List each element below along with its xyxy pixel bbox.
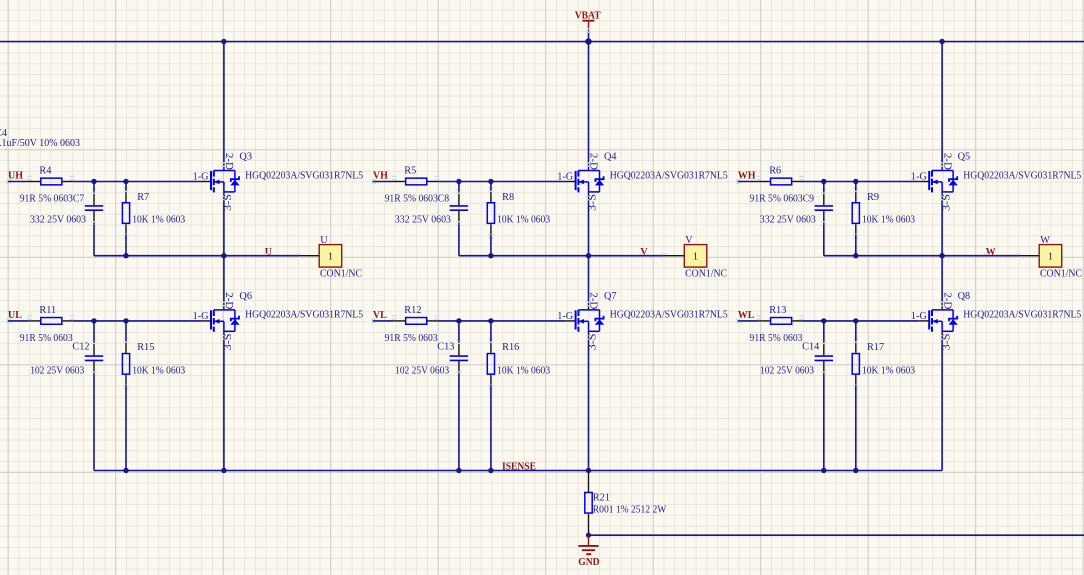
compile mark: [661, 253, 666, 258]
junction: [853, 318, 858, 323]
wire: [93, 182, 95, 191]
svg-text:R17: R17: [867, 342, 884, 353]
compile mark: [821, 189, 826, 194]
wire cap to output row: [823, 225, 825, 256]
resistor R15: [122, 338, 185, 389]
svg-text:Q4: Q4: [604, 152, 617, 163]
wire R8 to output row: [490, 235, 492, 256]
svg-text:3-S: 3-S: [941, 333, 952, 350]
resistor R21: [585, 471, 667, 536]
svg-text:W: W: [986, 247, 996, 258]
svg-text:CON1/NC: CON1/NC: [685, 268, 727, 279]
svg-text:R11: R11: [39, 305, 56, 316]
svg-text:HGQ02203A/SVG031R7NL5: HGQ02203A/SVG031R7NL5: [963, 170, 1081, 181]
compile mark: [586, 162, 591, 167]
compile mark: [940, 335, 945, 340]
resistor R4: [27, 166, 75, 185]
svg-text:C12: C12: [72, 342, 89, 353]
wire VBAT to Q5 drain: [941, 42, 943, 162]
junction: [853, 468, 858, 473]
compile mark: [221, 162, 226, 167]
svg-text:R5: R5: [404, 166, 416, 177]
wire R4 to Q3 gate: [72, 181, 201, 183]
resistor R16: [487, 338, 550, 389]
resistor R7: [122, 187, 185, 238]
capacitor C4 (label only): [0, 128, 80, 149]
compile mark: [92, 221, 97, 226]
svg-text:U: U: [320, 235, 328, 246]
svg-text:2-D: 2-D: [588, 153, 599, 171]
wire: [490, 321, 492, 341]
svg-text:Q5: Q5: [958, 152, 971, 163]
wire R15 to ISENSE rail: [125, 385, 127, 470]
svg-text:R16: R16: [502, 342, 519, 353]
svg-text:91R 5% 0603: 91R 5% 0603: [750, 333, 803, 344]
compile mark: [124, 187, 129, 192]
wire: [823, 182, 825, 191]
compile mark: [736, 319, 741, 324]
junction: [123, 179, 128, 184]
compile mark: [821, 221, 826, 226]
svg-text:10K 1% 0603: 10K 1% 0603: [862, 365, 915, 376]
wire cap to ISENSE rail: [458, 375, 460, 471]
compile mark: [821, 339, 826, 344]
svg-text:332 25V 0603: 332 25V 0603: [760, 215, 816, 226]
svg-text:3-S: 3-S: [223, 333, 234, 350]
wire cap to output row: [93, 225, 95, 256]
svg-text:10K 1% 0603: 10K 1% 0603: [862, 215, 915, 226]
svg-text:R13: R13: [769, 305, 786, 316]
compile mark: [984, 253, 989, 258]
svg-text:2-D: 2-D: [223, 153, 234, 171]
resistor R17: [852, 338, 915, 389]
svg-text:V: V: [640, 247, 648, 258]
wire Q5 source to output row: [941, 201, 943, 255]
transistor Q3: [193, 152, 364, 212]
capacitor C: [450, 189, 468, 226]
compile mark: [27, 176, 32, 181]
wire: [458, 182, 460, 191]
compile mark: [221, 196, 226, 201]
compile mark: [1016, 253, 1021, 258]
connector CON1/NC (V): [664, 235, 727, 279]
svg-text:91R 5% 0603: 91R 5% 0603: [20, 333, 73, 344]
compile mark: [853, 385, 858, 390]
compile mark: [6, 319, 11, 324]
resistor R8: [487, 187, 550, 238]
wire VBAT stem: [588, 31, 590, 42]
junction: [586, 253, 591, 258]
svg-text:R4: R4: [39, 166, 51, 177]
svg-text:CON1/NC: CON1/NC: [320, 268, 362, 279]
power VBAT: [575, 10, 601, 30]
compile mark: [799, 176, 804, 181]
svg-text:1-G: 1-G: [911, 172, 928, 183]
compile mark: [821, 371, 826, 376]
wire output row to Q8 drain: [941, 256, 943, 301]
svg-text:R6: R6: [769, 166, 781, 177]
wire output W: [824, 255, 1019, 257]
svg-text:91R 5% 0603C7: 91R 5% 0603C7: [20, 193, 85, 204]
wire R17 to ISENSE rail: [855, 385, 857, 470]
svg-text:91R 5% 0603C8: 91R 5% 0603C8: [385, 193, 450, 204]
transistor Q5: [911, 152, 1082, 212]
compile mark: [586, 335, 591, 340]
compile mark: [456, 221, 461, 226]
wire R7 to output row: [125, 235, 127, 256]
junction: [488, 468, 493, 473]
svg-text:10K 1% 0603: 10K 1% 0603: [132, 365, 185, 376]
svg-text:CON1/NC: CON1/NC: [1040, 268, 1082, 279]
resistor R13: [757, 305, 805, 324]
junction GND: [586, 533, 591, 538]
junction: [488, 179, 493, 184]
svg-text:R9: R9: [867, 192, 879, 203]
svg-text:3-S: 3-S: [223, 194, 234, 211]
svg-text:Q6: Q6: [239, 291, 252, 302]
wire Q3 source to output row: [223, 201, 225, 255]
compile mark: [853, 338, 858, 343]
compile mark: [757, 315, 762, 320]
svg-text:332 25V 0603: 332 25V 0603: [30, 215, 86, 226]
junction: [123, 468, 128, 473]
compile mark: [70, 315, 75, 320]
svg-text:1-G: 1-G: [193, 311, 210, 322]
wire: [125, 182, 127, 191]
junction: [456, 318, 461, 323]
compile mark: [586, 302, 591, 307]
wire: [490, 182, 492, 191]
junction: [221, 253, 226, 258]
junction: [586, 468, 591, 473]
compile mark: [92, 189, 97, 194]
capacitor C14: [802, 339, 833, 376]
junction: [91, 179, 96, 184]
wire UH to R4: [8, 181, 29, 183]
svg-text:V: V: [685, 235, 693, 246]
svg-text:Q7: Q7: [604, 291, 617, 302]
compile mark: [456, 371, 461, 376]
svg-text:C13: C13: [437, 342, 454, 353]
wire Q4 source to output row: [588, 201, 590, 255]
power rail VBAT wire: [0, 41, 1084, 43]
svg-text:1: 1: [1048, 251, 1053, 262]
junction: [939, 253, 944, 258]
junction: [488, 318, 493, 323]
wire: [823, 321, 825, 341]
wire R6 to Q5 gate: [802, 181, 919, 183]
junction: [821, 179, 826, 184]
compile mark: [736, 179, 741, 184]
junction: [853, 179, 858, 184]
compile mark: [392, 176, 397, 181]
compile mark: [371, 179, 376, 184]
svg-text:2-D: 2-D: [941, 292, 952, 310]
compile mark: [488, 187, 493, 192]
junction: [488, 253, 493, 258]
wire R11 to Q6 gate: [72, 320, 201, 322]
resistor R9: [852, 187, 915, 238]
compile mark: [853, 234, 858, 239]
wire output V: [459, 255, 664, 257]
transistor Q6: [193, 291, 364, 351]
svg-text:91R 5% 0603C9: 91R 5% 0603C9: [750, 193, 815, 204]
compile mark: [639, 253, 644, 258]
svg-text:102 25V 0603: 102 25V 0603: [30, 366, 84, 377]
wire GND rail: [589, 534, 1084, 536]
wire R12 to Q7 gate: [437, 320, 565, 322]
transistor Q8: [911, 291, 1082, 351]
compile mark: [221, 302, 226, 307]
compile mark: [124, 338, 129, 343]
junction: [91, 318, 96, 323]
compile mark: [296, 253, 301, 258]
svg-text:332 25V 0603: 332 25V 0603: [395, 215, 451, 226]
junction: [853, 253, 858, 258]
compile mark: [488, 385, 493, 390]
capacitor C13: [437, 339, 468, 376]
wire UL to R11: [8, 320, 29, 322]
resistor R12: [392, 305, 440, 324]
svg-text:3-S: 3-S: [941, 194, 952, 211]
svg-text:C14: C14: [802, 342, 819, 353]
compile mark: [92, 339, 97, 344]
junction: [821, 318, 826, 323]
capacitor C12: [72, 339, 103, 376]
resistor R5: [392, 166, 440, 185]
compile mark: [488, 338, 493, 343]
svg-text:HGQ02203A/SVG031R7NL5: HGQ02203A/SVG031R7NL5: [245, 170, 363, 181]
compile mark: [488, 234, 493, 239]
svg-text:W: W: [1040, 235, 1050, 246]
svg-text:HGQ02203A/SVG031R7NL5: HGQ02203A/SVG031R7NL5: [245, 310, 363, 321]
wire: [855, 182, 857, 191]
svg-text:1: 1: [328, 251, 333, 262]
svg-text:102 25V 0603: 102 25V 0603: [395, 366, 449, 377]
svg-text:R8: R8: [502, 192, 514, 203]
compile mark: [853, 187, 858, 192]
svg-text:1-G: 1-G: [557, 311, 574, 322]
compile mark: [221, 335, 226, 340]
compile mark: [456, 339, 461, 344]
svg-text:HGQ02203A/SVG031R7NL5: HGQ02203A/SVG031R7NL5: [963, 310, 1081, 321]
wire output row to Q7 drain: [588, 256, 590, 301]
junction: [456, 179, 461, 184]
capacitor C: [85, 189, 103, 226]
compile mark: [124, 385, 129, 390]
compile mark: [27, 315, 32, 320]
resistor R11: [27, 305, 75, 324]
compile mark: [586, 28, 591, 33]
svg-text:2-D: 2-D: [223, 292, 234, 310]
junction: [456, 468, 461, 473]
wire: [458, 321, 460, 341]
compile mark: [586, 196, 591, 201]
junction VBAT rail: [939, 39, 944, 44]
compile mark: [940, 196, 945, 201]
compile mark: [799, 315, 804, 320]
svg-text:ISENSE: ISENSE: [502, 462, 536, 473]
compile mark: [264, 253, 269, 258]
compile mark: [392, 315, 397, 320]
compile mark: [6, 179, 11, 184]
svg-text:R15: R15: [137, 342, 154, 353]
compile mark: [124, 234, 129, 239]
transistor Q4: [557, 152, 728, 212]
connector CON1/NC (U): [299, 235, 362, 279]
wire WH to R6: [738, 181, 759, 183]
svg-text:3-S: 3-S: [588, 194, 599, 211]
resistor R6: [757, 166, 805, 185]
svg-text:3-S: 3-S: [588, 333, 599, 350]
svg-text:0.1uF/50V 10% 0603: 0.1uF/50V 10% 0603: [0, 138, 80, 149]
compile mark: [70, 176, 75, 181]
svg-text:1-G: 1-G: [193, 172, 210, 183]
svg-text:10K 1% 0603: 10K 1% 0603: [132, 215, 185, 226]
wire output row to Q6 drain: [223, 256, 225, 301]
svg-text:R21: R21: [593, 492, 610, 503]
svg-text:R7: R7: [137, 192, 149, 203]
wire: [93, 321, 95, 341]
transistor Q7: [557, 291, 728, 351]
svg-text:HGQ02203A/SVG031R7NL5: HGQ02203A/SVG031R7NL5: [610, 170, 728, 181]
wire ISENSE rail: [94, 470, 942, 472]
svg-text:HGQ02203A/SVG031R7NL5: HGQ02203A/SVG031R7NL5: [610, 310, 728, 321]
svg-text:1-G: 1-G: [557, 172, 574, 183]
junction: [821, 468, 826, 473]
junction VBAT rail: [585, 38, 591, 44]
svg-text:1: 1: [693, 251, 698, 262]
wire WL to R13: [738, 320, 759, 322]
compile mark: [456, 189, 461, 194]
wire VH to R5: [373, 181, 394, 183]
svg-text:2-D: 2-D: [588, 292, 599, 310]
wire R13 to Q8 gate: [802, 320, 919, 322]
compile mark: [434, 315, 439, 320]
connector CON1/NC (W): [1019, 235, 1082, 279]
wire R9 to output row: [855, 235, 857, 256]
wire VL to R12: [373, 320, 394, 322]
compile mark: [434, 176, 439, 181]
svg-text:10K 1% 0603: 10K 1% 0603: [497, 215, 550, 226]
svg-text:U: U: [265, 247, 272, 258]
svg-text:102 25V 0603: 102 25V 0603: [760, 366, 814, 377]
svg-text:2-D: 2-D: [941, 153, 952, 171]
svg-text:10K 1% 0603: 10K 1% 0603: [497, 365, 550, 376]
compile mark: [371, 319, 376, 324]
compile mark: [92, 371, 97, 376]
svg-text:1-G: 1-G: [911, 311, 928, 322]
svg-text:R001 1% 2512 2W: R001 1% 2512 2W: [593, 504, 667, 515]
wire cap to ISENSE rail: [93, 375, 95, 471]
wire output U: [94, 255, 299, 257]
svg-text:Q8: Q8: [958, 291, 971, 302]
svg-text:Q3: Q3: [239, 152, 252, 163]
wire R16 to ISENSE rail: [490, 385, 492, 470]
svg-text:R12: R12: [404, 305, 421, 316]
compile mark: [940, 302, 945, 307]
junction VBAT rail: [221, 39, 226, 44]
wire: [855, 321, 857, 341]
ground: [578, 535, 599, 568]
wire cap to output row: [458, 225, 460, 256]
compile mark: [757, 176, 762, 181]
capacitor C: [815, 189, 833, 226]
wire VBAT to Q4 drain: [588, 42, 590, 162]
wire Q7 source to ISENSE rail: [588, 341, 590, 471]
compile mark: [940, 162, 945, 167]
junction: [123, 253, 128, 258]
wire R5 to Q4 gate: [437, 181, 565, 183]
wire Q6 source to ISENSE rail: [223, 341, 225, 471]
wire: [125, 321, 127, 341]
junction: [221, 468, 226, 473]
junction: [123, 318, 128, 323]
wire VBAT to Q3 drain: [223, 42, 225, 162]
svg-text:91R 5% 0603: 91R 5% 0603: [385, 333, 438, 344]
svg-text:GND: GND: [578, 557, 599, 568]
wire cap to ISENSE rail: [823, 375, 825, 471]
wire Q8 source to ISENSE rail: [941, 341, 943, 471]
